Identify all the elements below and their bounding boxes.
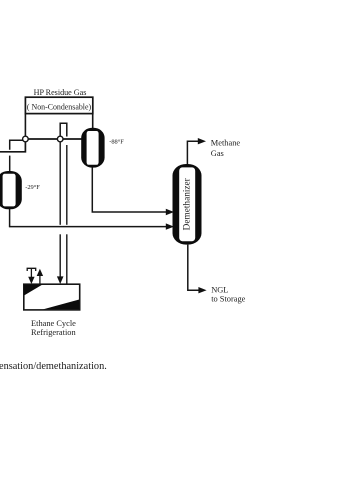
refrigeration box shading bottom-right bbox=[43, 300, 79, 310]
svg-text:Refrigeration: Refrigeration bbox=[31, 328, 76, 337]
wire: main horizontal header bbox=[27, 138, 82, 140]
wire: V1 bottom to lower feed header bbox=[9, 209, 11, 227]
crossover loop over header bbox=[60, 123, 67, 136]
node A junction circle bbox=[23, 136, 29, 142]
vessel V2 (-88 F separator) bbox=[81, 128, 104, 168]
wire: refrigerant line left (node B down to refrigeration box, arrow) bbox=[59, 142, 61, 225]
wire: V2 bottom to upper feed line with arrow into demethanizer bbox=[92, 167, 166, 212]
svg-text:Demethanizer: Demethanizer bbox=[183, 177, 193, 230]
svg-text:Gas: Gas bbox=[211, 149, 224, 158]
svg-text:Ethane Cycle: Ethane Cycle bbox=[31, 319, 76, 328]
wire: demethanizer overhead to methane gas arrow bbox=[187, 141, 198, 164]
refrigeration box shading top-left bbox=[24, 285, 43, 296]
non-condensable label box bbox=[25, 97, 92, 113]
svg-text:-88°F: -88°F bbox=[109, 138, 124, 145]
node B junction circle bbox=[57, 136, 63, 142]
wire: step from node A to V1 feed bbox=[10, 140, 25, 150]
wire: node A down then left off-canvas bbox=[0, 142, 25, 152]
demethanizer column U1 bbox=[173, 164, 202, 245]
wire: box bottom-right down to vessel V2 top bbox=[92, 113, 94, 129]
wire: V1 feed lower segment bbox=[9, 156, 11, 172]
svg-text:ensation/demethanization.: ensation/demethanization. bbox=[0, 361, 107, 372]
svg-text:HP Residue Gas: HP Residue Gas bbox=[34, 88, 87, 97]
vessel V1 (-29 F separator) bbox=[0, 171, 22, 209]
refrigeration box bbox=[24, 284, 80, 310]
heat-duty squiggle with down arrow bbox=[27, 268, 36, 271]
svg-text:( Non-Condensable): ( Non-Condensable) bbox=[27, 102, 92, 111]
up arrow out of refrigeration box bbox=[39, 275, 41, 285]
wire: lower feed line to demethanizer with arrow bbox=[9, 226, 167, 228]
wire: box bottom-left to node A bbox=[24, 113, 26, 136]
svg-text:to Storage: to Storage bbox=[211, 295, 245, 304]
svg-text:Methane: Methane bbox=[211, 139, 241, 148]
wire: demethanizer bottoms to NGL arrow bbox=[188, 245, 199, 291]
svg-text:-29°F: -29°F bbox=[25, 184, 40, 191]
svg-text:NGL: NGL bbox=[211, 285, 228, 294]
wire: refrigerant line right (down to refrigeration box) bbox=[66, 145, 68, 225]
